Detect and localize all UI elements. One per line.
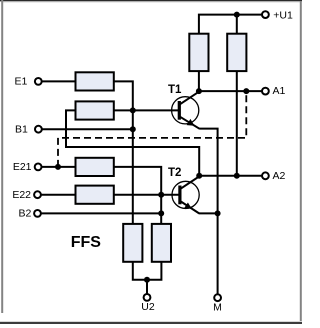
wire: dashed feedback E21 to A1 (58, 91, 246, 167)
node: junction on supply rail (234, 12, 240, 18)
wire: R5 right lead to node column B (114, 167, 161, 224)
node: T1 collector junction (196, 88, 202, 94)
terminal A2 (262, 172, 269, 179)
terminal M (214, 294, 221, 301)
node: B2 junction (158, 210, 164, 216)
svg-text:B1: B1 (15, 123, 28, 135)
wire: B2 to node column B (41, 212, 161, 214)
node: T2 base junction (158, 192, 164, 198)
wire: T2 emitter to M rail (199, 212, 218, 214)
frame right (300, 1, 302, 321)
wire: top supply rail (199, 15, 262, 34)
svg-text:B2: B2 (18, 208, 31, 220)
node: B1 junction (130, 126, 136, 132)
wire: E1 to R3 (42, 80, 76, 82)
wire: R7/R8 bottom leads join to U2 (133, 262, 162, 280)
wire: A2 output line (199, 175, 262, 177)
node: T1 base junction (130, 107, 136, 113)
svg-text:A1: A1 (273, 85, 286, 97)
resistor R4 (coupling resistor to T1 base) (76, 101, 114, 119)
terminal B1 (35, 126, 42, 133)
node: U2 junction (144, 277, 150, 283)
terminal E1 (35, 78, 42, 85)
svg-text:+U1: +U1 (273, 10, 293, 22)
wire: R4 right lead to T1 base (114, 109, 180, 111)
resistor R5 (E21 input resistor) (76, 158, 114, 176)
wire: E21 to R5 (42, 166, 76, 168)
wire: B1 to node column A (42, 128, 133, 130)
svg-text:T1: T1 (168, 84, 182, 96)
wire: coupling from R4 left to T2 collector (66, 110, 199, 175)
node: T2 collector junction (196, 173, 202, 179)
resistor R7 (base resistor T1, vertical) (123, 224, 142, 262)
resistor R2 (collector resistor T2, vertical) (227, 34, 246, 71)
wire: E22 to R6 (41, 194, 76, 196)
wire: R1 bottom lead to A1 node (198, 71, 200, 91)
wire: A1 output line (199, 90, 262, 92)
svg-text:E1: E1 (14, 76, 27, 88)
terminal B2 (34, 210, 41, 217)
resistor R3 (E1 input resistor) (76, 72, 114, 90)
svg-text:T2: T2 (168, 167, 181, 179)
node: emitter junction on M rail (215, 210, 221, 216)
wire: right top resistor to rail (236, 15, 238, 34)
svg-text:FFS: FFS (71, 234, 102, 251)
svg-text:A2: A2 (273, 170, 286, 182)
frame left (1, 0, 3, 313)
wire: junction to U2 terminal (146, 280, 148, 294)
wire: R6 right lead to T2 base (114, 194, 180, 196)
resistor R6 (E22 input resistor) (76, 186, 114, 204)
wire: R3 right lead to node A column (114, 81, 133, 224)
node: R2 lead junction on A2 (234, 173, 240, 179)
terminal +U1 (262, 11, 269, 18)
terminal A1 (262, 88, 269, 95)
wire: R2 bottom lead down to A2 node (236, 71, 238, 176)
svg-text:E22: E22 (12, 189, 31, 201)
frame bottom (0, 322, 302, 324)
terminal E21 (35, 164, 42, 171)
frame top (0, 0, 302, 1)
svg-text:U2: U2 (141, 301, 155, 313)
resistor R8 (base resistor T2, vertical) (152, 224, 171, 262)
svg-text:M: M (213, 302, 222, 314)
wire: T1 emitter to M rail (199, 129, 217, 295)
node: dashed feedback tap on A1 (243, 88, 249, 94)
terminal U2 (144, 294, 151, 301)
svg-text:E21: E21 (13, 161, 32, 173)
terminal E22 (34, 191, 41, 198)
node: E21 dashed tap (55, 164, 61, 170)
resistor R1 (collector resistor T1, vertical) (189, 34, 208, 71)
